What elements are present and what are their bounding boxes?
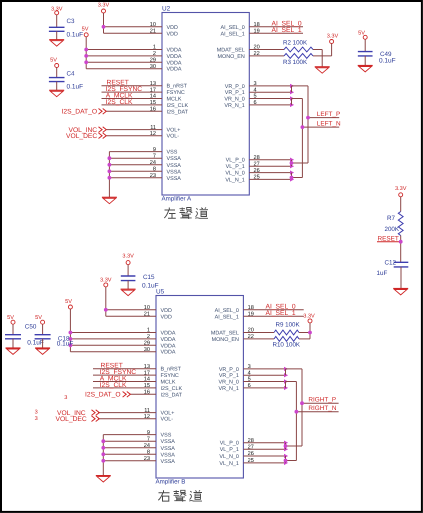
capacitor C12 <box>377 260 409 277</box>
net LEFT_N label and stub <box>302 121 341 128</box>
svg-text:21: 21 <box>144 312 150 318</box>
U2 pin 26 VL_N_0 wire <box>225 168 294 177</box>
capacitor C3 <box>49 18 83 39</box>
svg-text:VSS: VSS <box>161 433 172 439</box>
svg-text:1: 1 <box>153 45 156 51</box>
svg-text:27: 27 <box>248 444 254 450</box>
U2 pin 7 VSSA wire <box>109 153 181 162</box>
svg-text:VDD: VDD <box>161 308 172 314</box>
wire C12 to ground <box>400 267 402 289</box>
svg-text:9: 9 <box>153 147 156 153</box>
svg-text:R3 100K: R3 100K <box>283 59 308 66</box>
resistor R9 100K <box>274 322 300 335</box>
svg-text:VOL+: VOL+ <box>167 128 181 134</box>
svg-text:I2S_CLK: I2S_CLK <box>100 382 127 389</box>
svg-text:22: 22 <box>248 334 254 340</box>
ground below R2 R3 node <box>315 66 330 68</box>
svg-text:4: 4 <box>248 370 251 376</box>
wire R7 to C12 <box>400 236 402 263</box>
svg-text:VDD: VDD <box>167 31 178 37</box>
wire node vertical to ground <box>321 50 323 67</box>
svg-text:VR_P_0: VR_P_0 <box>219 367 239 373</box>
wire C15 to ground <box>127 281 129 290</box>
U5 pin 3 VR_P_0 wire <box>219 364 288 373</box>
U2 pin 15 I2S_CLK wire <box>102 100 189 109</box>
resistor R10 100K <box>273 337 301 349</box>
U5 pin 4 VR_P_1 wire <box>219 370 288 379</box>
svg-text:VOL_DEC: VOL_DEC <box>66 133 97 140</box>
U2 pin 2 VDDA wire <box>86 51 182 60</box>
capacitor C49 <box>358 51 396 64</box>
U2 pin 9 VSS wire <box>109 147 177 156</box>
junction LEFT_N <box>301 125 305 129</box>
junction VSSA pin23 <box>108 176 112 180</box>
svg-text:B_nRST: B_nRST <box>167 84 188 90</box>
svg-text:28: 28 <box>254 155 260 161</box>
svg-text:C15: C15 <box>143 274 155 281</box>
U5 pin 17 FSYNC wire <box>93 370 179 379</box>
svg-text:15: 15 <box>144 383 150 389</box>
U2 pin 14 MCLK wire <box>102 94 182 103</box>
U5 pin 26 VL_N_0 wire <box>219 451 288 460</box>
svg-text:12: 12 <box>150 131 156 137</box>
svg-text:VL_N_1: VL_N_1 <box>225 177 244 183</box>
svg-text:0.1uF: 0.1uF <box>27 340 44 347</box>
svg-text:C4: C4 <box>67 70 76 77</box>
svg-text:22: 22 <box>254 51 260 57</box>
svg-text:3.3V: 3.3V <box>98 3 110 9</box>
svg-text:VL_P_1: VL_P_1 <box>220 447 239 453</box>
U2 pin 19 AI_SEL_1 wire <box>221 29 303 38</box>
wire VL_N pair link U5 <box>286 456 297 463</box>
svg-text:AI_SEL_1: AI_SEL_1 <box>221 31 245 37</box>
svg-text:23: 23 <box>144 456 150 462</box>
svg-text:11: 11 <box>150 125 156 131</box>
U5 pin 5 VR_N_0 wire <box>219 377 289 386</box>
junction VDDA pin2 <box>84 54 88 58</box>
U5 pin 11 VOL+ wire <box>98 408 174 417</box>
svg-text:17: 17 <box>150 87 156 93</box>
capacitor C18 <box>35 335 74 348</box>
junction U5 VSSA pin24 <box>101 446 105 450</box>
U5 pin 14 MCLK wire <box>93 377 176 386</box>
U2 pin 6 VR_N_1 wire <box>224 100 294 109</box>
svg-text:7: 7 <box>153 153 156 159</box>
U5 pin 25 VL_N_1 wire <box>219 458 288 467</box>
svg-text:B_nRST: B_nRST <box>161 367 182 373</box>
U5 pin 15 I2S_CLK wire <box>93 383 182 392</box>
svg-text:R10 100K: R10 100K <box>273 341 301 348</box>
svg-text:VR_N_1: VR_N_1 <box>224 103 244 109</box>
svg-text:0.1uF: 0.1uF <box>67 83 84 90</box>
svg-text:0.1uF: 0.1uF <box>67 31 84 38</box>
svg-text:VDDA: VDDA <box>167 54 182 60</box>
power 5V rail to U2 VDDA <box>82 27 89 69</box>
power 5V for C50 <box>7 315 15 335</box>
wire VSS bus vertical U5 <box>102 435 104 476</box>
svg-text:28: 28 <box>248 438 254 444</box>
svg-text:1uF: 1uF <box>377 270 388 277</box>
U2 pin 3 VR_P_0 wire <box>225 81 294 90</box>
wire C4 to ground <box>56 82 58 91</box>
wire VR_P pair link U5 <box>286 369 303 375</box>
U5 pin 20 MDAT_SEL wire <box>211 328 274 337</box>
capacitor C4 <box>49 70 83 90</box>
svg-text:30: 30 <box>150 64 156 70</box>
U2 pin 12 VOL- wire <box>107 131 180 140</box>
junction U5 VSSA pin7 <box>101 439 105 443</box>
svg-text:2: 2 <box>153 51 156 57</box>
svg-text:MDAT_SEL: MDAT_SEL <box>211 331 239 337</box>
off-page connector I2S_DAT_O to U2 pin16 <box>62 109 107 116</box>
svg-text:VR_N_1: VR_N_1 <box>219 386 239 392</box>
svg-text:10: 10 <box>144 305 150 311</box>
svg-text:18: 18 <box>248 305 254 311</box>
U2 pin 1 VDDA wire <box>86 45 182 54</box>
U2 pin 20 MDAT_SEL wire <box>217 45 284 54</box>
svg-text:21: 21 <box>150 29 156 35</box>
ground below C4 <box>49 89 64 91</box>
U5 pin 23 VSSA wire <box>103 456 175 465</box>
svg-text:VSSA: VSSA <box>167 163 182 169</box>
U5 pin 1 VDDA wire <box>70 328 175 337</box>
svg-text:R2 100K: R2 100K <box>283 40 308 47</box>
ground below C50 <box>6 347 21 349</box>
off-page connector VOL_DEC to U5 pin12 <box>56 416 100 423</box>
op-amp U2 Amplifier A IC body <box>162 6 249 195</box>
svg-text:200K: 200K <box>385 226 400 233</box>
U2 pin 25 VL_N_1 wire <box>225 175 294 184</box>
svg-text:1: 1 <box>147 328 150 334</box>
svg-text:25: 25 <box>248 458 254 464</box>
svg-text:8: 8 <box>147 450 150 456</box>
svg-text:8: 8 <box>153 167 156 173</box>
U5 pin 29 VDDA wire <box>70 341 175 350</box>
svg-text:MONO_EN: MONO_EN <box>212 337 239 343</box>
svg-text:5: 5 <box>254 94 257 100</box>
svg-text:11: 11 <box>144 408 150 414</box>
svg-text:10: 10 <box>150 22 156 28</box>
svg-text:3.3V: 3.3V <box>122 254 134 260</box>
svg-text:C50: C50 <box>25 324 37 331</box>
junction U5 VDD pin10 <box>104 308 108 312</box>
wire R3 right to 3.3V drop <box>313 55 332 57</box>
svg-text:VDD: VDD <box>161 314 172 320</box>
svg-text:5: 5 <box>248 377 251 383</box>
U5 pin 7 VSSA wire <box>103 436 175 445</box>
svg-text:VL_N_1: VL_N_1 <box>219 461 238 467</box>
svg-text:0.1uF: 0.1uF <box>142 282 159 289</box>
junction U5 VSSA pin23 <box>101 459 105 463</box>
svg-text:5V: 5V <box>50 57 57 63</box>
svg-text:VSSA: VSSA <box>167 156 182 162</box>
wire VR_N pair link U5 <box>286 382 297 388</box>
junction U5 VSSA pin8 <box>101 452 105 456</box>
U2 pin 29 VDDA wire <box>86 58 182 67</box>
svg-text:14: 14 <box>150 94 156 100</box>
svg-text:2: 2 <box>147 334 150 340</box>
junction VSSA pin8 <box>108 169 112 173</box>
svg-text:VSSA: VSSA <box>167 169 182 175</box>
U5 pin 10 VDD wire <box>106 305 172 314</box>
U5 pin 12 VOL- wire <box>98 414 173 423</box>
svg-text:5V: 5V <box>358 31 365 37</box>
svg-text:25: 25 <box>254 175 260 181</box>
svg-text:Amplifier A: Amplifier A <box>162 195 192 202</box>
svg-text:3: 3 <box>64 395 67 401</box>
svg-text:VL_N_0: VL_N_0 <box>219 454 238 460</box>
svg-text:16: 16 <box>144 390 150 396</box>
svg-text:6: 6 <box>254 100 257 106</box>
svg-text:3: 3 <box>35 416 38 422</box>
U5 pin 30 VDDA wire <box>70 347 175 356</box>
U2 pin 5 VR_N_0 wire <box>224 94 294 103</box>
op-amp U5 Amplifier B IC body <box>156 289 243 478</box>
U5 pin 18 AI_SEL_0 wire <box>215 305 304 314</box>
svg-text:5V: 5V <box>65 299 72 305</box>
svg-text:C12: C12 <box>385 260 397 267</box>
ground below C15 <box>121 288 136 290</box>
svg-text:VDDA: VDDA <box>167 67 182 73</box>
svg-text:3: 3 <box>254 81 257 87</box>
svg-text:I2S_CLK: I2S_CLK <box>167 103 189 109</box>
svg-text:VDDA: VDDA <box>161 343 176 349</box>
power 3.3V for R7 <box>395 186 407 211</box>
net LEFT_P label and stub <box>308 111 340 118</box>
wire LEFT_N vertical bus <box>301 99 303 178</box>
svg-text:RESET: RESET <box>378 236 399 243</box>
svg-text:AI_SEL_0: AI_SEL_0 <box>215 308 239 314</box>
junction LEFT_P <box>306 116 310 120</box>
svg-text:7: 7 <box>147 436 150 442</box>
U5 pin 2 VDDA wire <box>70 334 175 343</box>
wire VSS bus vertical U2 <box>108 152 110 198</box>
U5 pin 28 VL_P_0 wire <box>220 438 288 447</box>
resistor R3 100K <box>283 54 313 66</box>
wire VL_N pair link U2 <box>292 173 303 180</box>
svg-text:I2S_DAT: I2S_DAT <box>167 109 189 115</box>
U2 pin 10 VDD wire <box>104 22 178 31</box>
ground below C18 <box>35 347 50 349</box>
svg-text:15: 15 <box>150 100 156 106</box>
U5 pin 22 MONO_EN wire <box>212 334 274 343</box>
svg-text:17: 17 <box>144 370 150 376</box>
svg-text:19: 19 <box>248 312 254 318</box>
svg-text:U2: U2 <box>162 6 171 13</box>
junction VL_P link <box>290 161 294 165</box>
svg-text:VSSA: VSSA <box>161 459 176 465</box>
svg-text:VDDA: VDDA <box>161 350 176 356</box>
caption left channel (Chinese) <box>164 208 208 220</box>
junction U5 VDDA pin1 <box>69 331 73 335</box>
svg-text:12: 12 <box>144 414 150 420</box>
svg-text:14: 14 <box>144 377 150 383</box>
svg-text:VSSA: VSSA <box>167 176 182 182</box>
off-page connector VOL_DEC to U2 pin12 <box>66 133 106 140</box>
svg-text:5V: 5V <box>7 315 14 321</box>
wire VR_P pair link U2 <box>292 86 309 92</box>
power 5V for C18 <box>35 315 45 335</box>
wire RIGHT_N vertical bus <box>295 382 297 461</box>
svg-text:I2S_CLK: I2S_CLK <box>106 99 133 106</box>
svg-text:3: 3 <box>35 410 38 416</box>
svg-text:RIGHT_N: RIGHT_N <box>308 405 336 412</box>
svg-text:VOL-: VOL- <box>167 134 180 140</box>
svg-text:20: 20 <box>254 45 260 51</box>
wire VL_P pair link U5 <box>286 443 303 450</box>
junction VDDA pin29 <box>84 60 88 64</box>
ground below C12 <box>393 288 408 290</box>
wire C3 to ground <box>56 31 58 39</box>
U5 pin 27 VL_P_1 wire <box>220 444 288 453</box>
U2 pin 23 VSSA wire <box>109 173 181 182</box>
svg-text:VOL-: VOL- <box>161 417 174 423</box>
ground below C49 <box>358 65 373 67</box>
power 3.3V rail to U5 VDD <box>100 278 112 317</box>
svg-text:VSSA: VSSA <box>161 452 176 458</box>
junction VSSA pin7 <box>108 156 112 160</box>
wire R9 right to node <box>299 332 310 334</box>
net RIGHT_N label and stub <box>296 405 338 412</box>
power 3.3V for C3 <box>51 6 63 27</box>
U2 pin 8 VSSA wire <box>109 167 181 176</box>
resistor R7 200K <box>385 212 404 236</box>
svg-text:3.3V: 3.3V <box>327 33 339 39</box>
svg-text:3.3V: 3.3V <box>395 186 407 192</box>
wire C50 to ground <box>12 339 14 348</box>
ground for U5 VSS <box>96 475 111 477</box>
net RIGHT_P label and stub <box>302 397 339 404</box>
svg-text:I2S_DAT_O: I2S_DAT_O <box>85 392 121 399</box>
svg-text:FSYNC: FSYNC <box>161 373 179 379</box>
U5 pin 6 VR_N_1 wire <box>219 383 289 392</box>
power 5V for C4 <box>50 57 59 77</box>
svg-text:MCLK: MCLK <box>161 380 176 386</box>
svg-text:30: 30 <box>144 347 150 353</box>
svg-text:3.3V: 3.3V <box>100 278 112 284</box>
svg-text:29: 29 <box>144 341 150 347</box>
svg-text:Amplifier B: Amplifier B <box>156 479 186 486</box>
svg-text:VOL_DEC: VOL_DEC <box>56 416 87 423</box>
svg-text:VSSA: VSSA <box>161 446 176 452</box>
svg-text:C3: C3 <box>67 18 76 25</box>
svg-text:4: 4 <box>254 87 257 93</box>
svg-text:19: 19 <box>254 29 260 35</box>
U2 pin 30 VDDA wire <box>86 64 182 73</box>
capacitor C50 <box>5 324 44 347</box>
ground below C3 <box>49 39 64 41</box>
svg-text:R7: R7 <box>387 215 396 222</box>
U5 pin 19 AI_SEL_1 wire <box>215 312 304 321</box>
svg-text:24: 24 <box>144 443 150 449</box>
svg-text:VR_P_0: VR_P_0 <box>225 84 245 90</box>
svg-text:AI_SEL_0: AI_SEL_0 <box>221 25 245 31</box>
U5 pin 13 B_nRST wire <box>93 364 182 373</box>
svg-text:VDDA: VDDA <box>167 48 182 54</box>
svg-text:VDDA: VDDA <box>161 331 176 337</box>
junction R9 3.3V node <box>308 331 312 335</box>
U5 pin 16 I2S_DAT wire <box>130 390 182 399</box>
junction VSSA pin24 <box>108 163 112 167</box>
U2 pin 11 VOL+ wire <box>107 125 181 134</box>
svg-text:23: 23 <box>150 173 156 179</box>
svg-text:VDD: VDD <box>167 25 178 31</box>
svg-text:3: 3 <box>248 364 251 370</box>
U2 pin 18 AI_SEL_0 wire <box>221 22 303 31</box>
U2 pin 27 VL_P_1 wire <box>226 161 294 170</box>
U2 pin 21 VDD wire <box>104 29 178 38</box>
svg-text:LEFT_N: LEFT_N <box>317 121 341 128</box>
wire LEFT_P vertical bus <box>307 86 309 163</box>
off-page connector VOL_INC to U5 pin11 <box>57 410 99 417</box>
wire VR_N pair link U2 <box>292 99 303 105</box>
U2 pin 17 FSYNC wire <box>102 87 185 96</box>
svg-text:29: 29 <box>150 58 156 64</box>
svg-text:5V: 5V <box>35 315 42 321</box>
svg-text:VR_N_0: VR_N_0 <box>219 380 239 386</box>
ground for U2 VSS <box>102 196 117 198</box>
wire R10 right to node <box>299 338 310 340</box>
svg-text:U5: U5 <box>156 289 165 296</box>
junction RIGHT_N <box>295 410 299 414</box>
svg-text:VL_P_0: VL_P_0 <box>226 158 245 164</box>
svg-text:I2S_DAT: I2S_DAT <box>161 392 183 398</box>
wire C49 to ground <box>364 56 366 66</box>
svg-text:VR_N_0: VR_N_0 <box>224 97 244 103</box>
svg-text:27: 27 <box>254 161 260 167</box>
power 3.3V pullup for R2 R3 <box>327 33 339 56</box>
svg-text:AI_SEL_1: AI_SEL_1 <box>266 310 296 317</box>
U5 pin 21 VDD wire <box>106 312 172 321</box>
junction U5 VDDA pin29 <box>69 343 73 347</box>
svg-text:VR_P_1: VR_P_1 <box>219 373 239 379</box>
svg-text:26: 26 <box>248 451 254 457</box>
svg-text:13: 13 <box>144 364 150 370</box>
svg-text:24: 24 <box>150 160 156 166</box>
junction VDD pin10 <box>102 25 106 29</box>
svg-text:VDDA: VDDA <box>167 60 182 66</box>
U5 pin 8 VSSA wire <box>103 450 175 459</box>
junction RESET on R7-C12 wire <box>399 240 403 244</box>
capacitor C15 <box>121 274 159 289</box>
svg-text:VR_P_1: VR_P_1 <box>225 90 245 96</box>
svg-text:R9 100K: R9 100K <box>276 322 301 329</box>
svg-text:16: 16 <box>150 107 156 113</box>
U2 pin 22 MONO_EN wire <box>218 51 284 60</box>
wire VL_P pair link U2 <box>292 160 309 167</box>
junction U5 VDDA pin2 <box>69 337 73 341</box>
junction VDDA pin1 <box>84 48 88 52</box>
svg-text:0.1uF: 0.1uF <box>379 58 396 65</box>
svg-text:MDAT_SEL: MDAT_SEL <box>217 48 245 54</box>
net label RESET stub <box>377 236 401 243</box>
svg-text:VSSA: VSSA <box>161 439 176 445</box>
off-page connector VOL_INC to U2 pin11 <box>69 127 107 134</box>
wire R2 right to node <box>313 49 322 51</box>
svg-text:13: 13 <box>150 81 156 87</box>
svg-text:RIGHT_P: RIGHT_P <box>308 397 336 404</box>
wire C18 to ground <box>42 339 44 348</box>
caption right channel (Chinese) <box>158 490 202 502</box>
svg-text:3.3V: 3.3V <box>303 313 315 319</box>
U5 pin 9 VSS wire <box>103 430 171 439</box>
svg-text:AI_SEL_1: AI_SEL_1 <box>272 27 302 34</box>
svg-text:AI_SEL_1: AI_SEL_1 <box>215 314 239 320</box>
U2 pin 24 VSSA wire <box>109 160 181 169</box>
svg-text:20: 20 <box>248 328 254 334</box>
power 3.3V for C15 <box>122 254 134 276</box>
power 3.3V rail to U2 VDD <box>98 3 110 34</box>
